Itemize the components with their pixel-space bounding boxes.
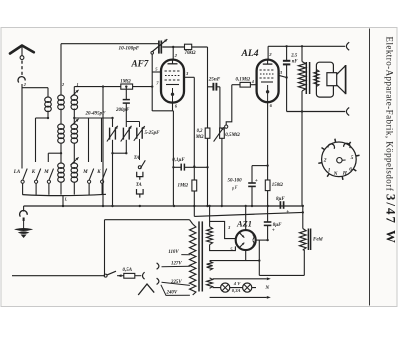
svg-text:+: + — [255, 178, 258, 184]
svg-text:N: N — [264, 285, 269, 291]
svg-text:L: L — [64, 197, 68, 202]
svg-text:0,1MΩ: 0,1MΩ — [236, 78, 251, 83]
svg-text:150Ω: 150Ω — [272, 183, 283, 188]
svg-text:LA: LA — [13, 170, 21, 175]
svg-text:M: M — [43, 170, 49, 175]
svg-text:nF: nF — [292, 60, 299, 65]
svg-text:H: H — [342, 171, 348, 177]
svg-text:240V: 240V — [166, 290, 178, 295]
svg-text:1MΩ: 1MΩ — [178, 183, 189, 188]
svg-text:Feld: Feld — [313, 237, 323, 242]
svg-text:20-495pF: 20-495pF — [85, 111, 107, 116]
svg-text:K: K — [96, 170, 101, 175]
svg-text:50-100: 50-100 — [228, 179, 243, 184]
svg-text:225V: 225V — [170, 280, 182, 285]
svg-text:70kΩ: 70kΩ — [185, 51, 196, 56]
svg-text:0,5MΩ: 0,5MΩ — [225, 133, 240, 138]
svg-text:2: 2 — [61, 82, 64, 87]
svg-text:K: K — [31, 170, 36, 175]
svg-text:1: 1 — [77, 82, 79, 87]
svg-text:0,3A: 0,3A — [232, 288, 241, 293]
svg-text:4: 4 — [251, 79, 254, 84]
svg-text:N: N — [333, 171, 338, 177]
svg-text:AZ1: AZ1 — [236, 219, 252, 228]
svg-text:AL4: AL4 — [241, 48, 259, 59]
svg-text:6: 6 — [349, 167, 352, 173]
svg-text:TA: TA — [136, 183, 143, 188]
svg-text:1MΩ: 1MΩ — [120, 80, 131, 85]
svg-text:200pF: 200pF — [115, 108, 130, 113]
svg-text:10-100pF: 10-100pF — [119, 45, 140, 51]
svg-text:2: 2 — [323, 157, 327, 163]
svg-text:8µF: 8µF — [276, 197, 285, 202]
svg-text:+: + — [286, 209, 289, 215]
svg-text:0,2: 0,2 — [197, 129, 204, 134]
svg-text:1: 1 — [328, 168, 331, 174]
svg-text:4 V: 4 V — [233, 281, 241, 286]
svg-text:+: + — [272, 228, 275, 234]
svg-text:AF7: AF7 — [131, 59, 149, 69]
svg-text:M: M — [82, 170, 88, 175]
svg-text:127V: 127V — [171, 262, 182, 267]
svg-text:0,1µF: 0,1µF — [172, 158, 185, 163]
svg-text:TA: TA — [134, 156, 141, 161]
svg-text:25nF: 25nF — [208, 76, 221, 82]
svg-text:5-25pF: 5-25pF — [145, 131, 161, 136]
svg-text:110V: 110V — [168, 250, 179, 255]
svg-text:0,5A: 0,5A — [123, 268, 133, 273]
svg-text:MΩ: MΩ — [195, 135, 204, 140]
svg-text:2,5: 2,5 — [290, 54, 298, 59]
svg-text:2: 2 — [23, 82, 26, 87]
svg-text:5: 5 — [351, 155, 354, 161]
